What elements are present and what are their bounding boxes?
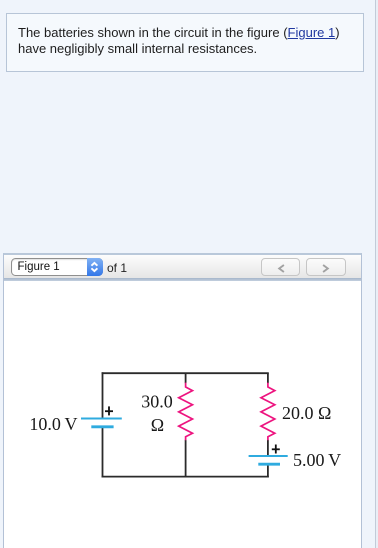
svg-text:5.00 V: 5.00 V (293, 450, 341, 470)
svg-text:10.0 V: 10.0 V (29, 414, 77, 434)
wire: bottom (102, 476, 269, 478)
prev button (261, 258, 301, 276)
figure panel (3, 253, 362, 548)
resistor R1 30.0 ohm (middle branch) (179, 383, 193, 441)
svg-text:30.0: 30.0 (141, 392, 173, 412)
wire: right lower stub (battery V2 to bottom) (267, 465, 269, 477)
next button (306, 258, 346, 276)
wire: middle branch lower stub (185, 440, 187, 477)
battery V2 plus sign (272, 445, 280, 454)
wire: left upper (to battery V1 +) (102, 372, 104, 417)
wire: top (102, 372, 269, 374)
wire: right upper stub (267, 373, 269, 383)
wire: middle branch upper stub (185, 373, 187, 383)
of 1 label (107, 259, 127, 277)
battery V2 plates (5.00 V) (249, 456, 288, 464)
wire: right middle stub (R2 to battery V2) (267, 440, 269, 455)
wire: left lower (battery V1 - to bottom) (102, 428, 104, 478)
question text box (6, 13, 364, 72)
figure select dropdown (11, 258, 103, 276)
resistor R2 20.0 ohm (right branch) (261, 383, 275, 441)
right page border strip (375, 0, 378, 548)
svg-text:20.0 Ω: 20.0 Ω (282, 403, 331, 423)
battery V1 plus sign (105, 406, 113, 415)
battery V1 plates (10.0 V) (81, 419, 122, 427)
svg-text:Ω: Ω (151, 415, 164, 435)
